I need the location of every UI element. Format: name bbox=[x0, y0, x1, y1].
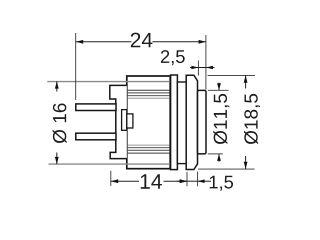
extension line diameter 18,5 top bbox=[208, 74, 255, 76]
arrowhead 1,5 left pointing right bbox=[180, 179, 187, 183]
label diameter 16 bbox=[53, 103, 67, 143]
body shading line bottom 2 bbox=[128, 147, 170, 149]
dimension line 2,5 bbox=[190, 67, 215, 69]
body shading line top 1 bbox=[128, 89, 170, 91]
front flange bbox=[186, 75, 197, 169]
extension line diameter 11,5 top bbox=[208, 89, 229, 91]
arrowhead 2,5 left bbox=[191, 66, 198, 70]
extension line diameter 18,5 bottom bbox=[198, 168, 255, 170]
label diameter 18,5 bbox=[244, 94, 260, 144]
solder pin upper bbox=[76, 104, 116, 111]
dimension diameter 11,5 top arrow bbox=[218, 83, 220, 91]
solder pin lower bbox=[76, 133, 116, 140]
main body cylinder bbox=[127, 76, 170, 169]
dimension diameter 18,5 bottom arrow bbox=[245, 156, 247, 169]
groove recess bbox=[177, 82, 186, 164]
arrowhead 24 left bbox=[76, 40, 83, 44]
label 2,5 bbox=[161, 50, 185, 65]
dimension 14 right extension line shared with 1,5 bbox=[186, 172, 188, 186]
dimension diameter 16 top arrow bbox=[56, 81, 58, 91]
body shading line bottom 1 bbox=[128, 144, 170, 146]
keyway block outer bbox=[122, 110, 127, 131]
dimension 24 right extension line shared with 2,5 bbox=[205, 35, 207, 90]
label diameter 11,5 bbox=[213, 94, 229, 144]
dimension line 24 bbox=[76, 41, 132, 43]
dimension diameter 18,5 top arrow bbox=[245, 76, 247, 89]
dimension 1,5 right extension line bbox=[197, 172, 199, 187]
body shading line top 4 bbox=[128, 97, 170, 99]
arrowhead 24 right bbox=[199, 40, 206, 44]
body shading line top 2 bbox=[128, 92, 170, 94]
label 1,5 bbox=[210, 176, 233, 191]
dimension diameter 16 bottom arrow bbox=[56, 153, 58, 165]
dimension diameter 11,5 bottom arrow bbox=[218, 154, 220, 162]
label 14 bbox=[141, 174, 162, 188]
label 24 bbox=[131, 33, 153, 48]
dimension line 14 bbox=[111, 180, 139, 182]
arrowhead 14 right bbox=[180, 179, 187, 183]
dimension 14 left extension line bbox=[110, 171, 112, 186]
body shading line bottom 4 bbox=[128, 152, 170, 154]
threaded bushing bbox=[198, 90, 207, 153]
extension line diameter 16 top bbox=[47, 81, 171, 83]
dimension 2,5 left extension line bbox=[197, 61, 199, 76]
rear bracket bbox=[110, 85, 127, 158]
keyway block inner bbox=[127, 114, 133, 128]
body shading line bottom 3 bbox=[128, 149, 170, 151]
rear ring of flange bbox=[171, 75, 178, 170]
dimension line 1,5 bbox=[177, 180, 187, 182]
extension line diameter 16 bottom bbox=[49, 163, 171, 165]
body shading line top 3 bbox=[128, 95, 170, 97]
arrowhead 1,5 right pointing left bbox=[198, 179, 205, 183]
dimension 24 left extension line bbox=[75, 33, 77, 100]
extension line diameter 11,5 bottom bbox=[208, 153, 223, 155]
arrowhead 14 left bbox=[111, 179, 118, 183]
arrowhead 2,5 right bbox=[206, 66, 213, 70]
